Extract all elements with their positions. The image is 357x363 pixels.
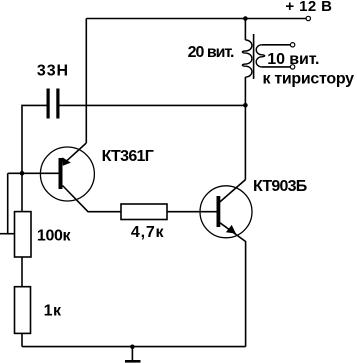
wire 100k to 1k xyxy=(21,257,23,287)
wire transformer secondary bottom lead xyxy=(262,66,291,68)
terminal secondary bottom xyxy=(290,65,294,69)
wire primary top xyxy=(244,19,246,41)
wire primary bottom to collector node xyxy=(244,77,246,180)
svg-text:+ 12 В: + 12 В xyxy=(285,0,332,15)
resistor R2 1k body xyxy=(15,287,31,334)
transformer T1 secondary winding 10 turns xyxy=(256,45,264,67)
wire 1k to bottom rail xyxy=(21,333,23,346)
transistor Q2 KT903B circle xyxy=(200,186,252,238)
transistor Q2 base bar xyxy=(217,196,221,227)
transistor Q1 KT361G circle xyxy=(40,147,94,201)
junction dot ground node xyxy=(130,345,135,350)
svg-text:20 вит.: 20 вит. xyxy=(188,44,234,61)
transistor Q1 emitter arrow (PNP, into base) xyxy=(62,157,71,166)
junction dot top rail / primary xyxy=(243,16,248,21)
svg-text:100к: 100к xyxy=(37,227,72,244)
transformer T1 primary winding 20 turns xyxy=(242,40,252,77)
wire input lead from left edge xyxy=(0,233,15,235)
wire bottom rail xyxy=(22,346,246,348)
svg-text:33Н: 33Н xyxy=(37,62,69,79)
wire KT903 collector diagonal xyxy=(220,180,246,203)
wire KT903 emitter down to bottom rail xyxy=(220,223,246,347)
transistor Q2 emitter arrow (NPN, away from base) xyxy=(226,225,236,234)
transistor Q1 base bar xyxy=(59,158,63,189)
wire top rail +12V xyxy=(86,18,306,20)
wire divider: base node down to 100k xyxy=(21,173,23,211)
resistor R3 4,7k body xyxy=(121,204,167,220)
resistor R1 100k body xyxy=(15,212,32,257)
wire capacitor right lead to transformer xyxy=(60,104,246,106)
svg-text:к тиристору: к тиристору xyxy=(263,71,355,88)
wire input rail left xyxy=(7,173,9,233)
terminal secondary top xyxy=(290,43,294,47)
wire KT361 base lead xyxy=(8,172,59,174)
ground xyxy=(125,347,141,362)
wire transformer secondary top lead xyxy=(262,44,291,46)
junction dot primary bottom / cap line xyxy=(243,103,248,108)
transformer T1 core xyxy=(253,34,255,79)
svg-text:КТ903Б: КТ903Б xyxy=(253,178,307,195)
capacitor C1 33H plates xyxy=(47,89,60,119)
wire KT361 emitter diagonal xyxy=(65,143,87,163)
wire left vertical from top rail to KT361 emitter xyxy=(85,19,87,144)
svg-text:1к: 1к xyxy=(44,303,62,320)
wire KT361 collector to resistor 4,7k xyxy=(63,186,122,212)
wire capacitor left lead xyxy=(22,105,47,173)
junction dot base node xyxy=(20,171,25,176)
svg-text:10 вит.: 10 вит. xyxy=(267,51,319,68)
svg-text:КТ361Г: КТ361Г xyxy=(102,148,154,165)
wire KT903 base lead xyxy=(167,211,217,213)
svg-text:4,7к: 4,7к xyxy=(131,224,165,241)
terminal +12V xyxy=(306,16,310,20)
